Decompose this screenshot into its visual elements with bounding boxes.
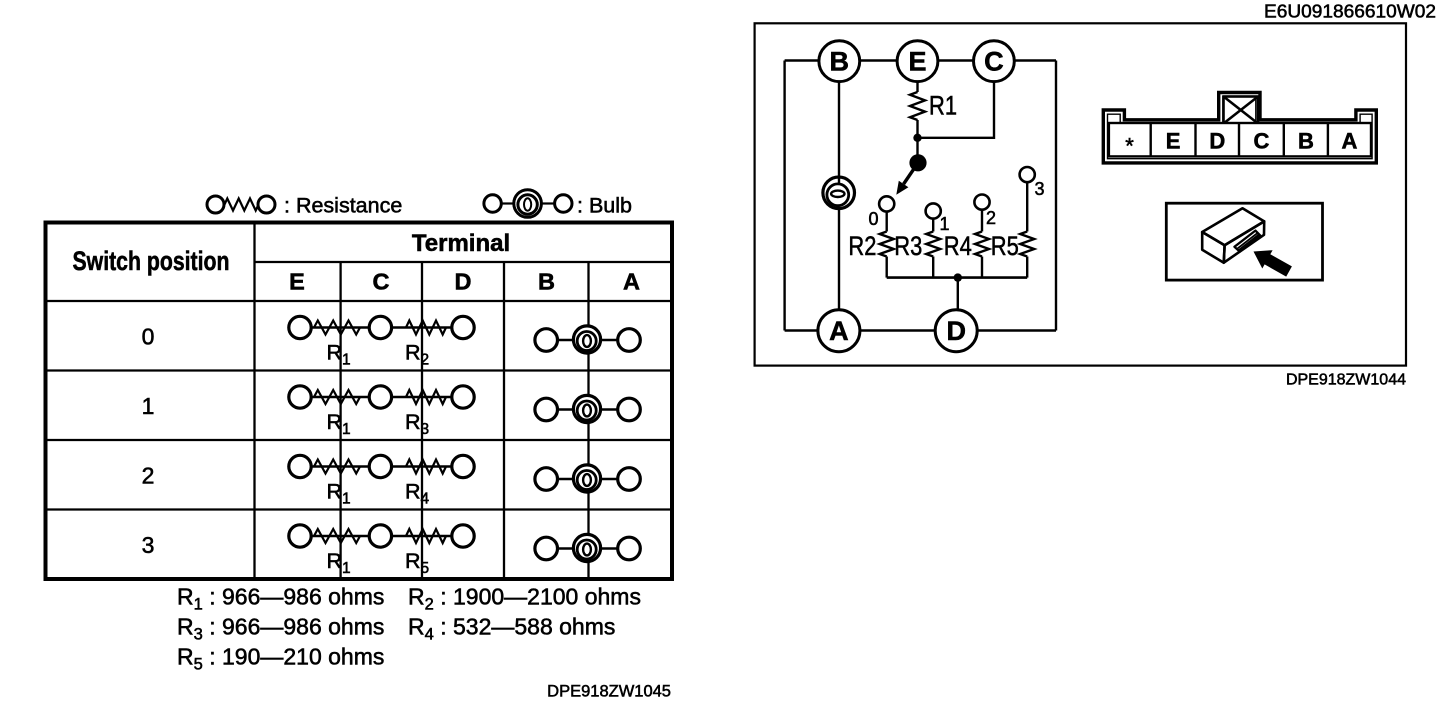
row 0 resistor chain circles [289, 316, 474, 338]
wire left outer vertical [783, 61, 785, 331]
connector pinout outline [1103, 93, 1376, 163]
switch pivot dot [909, 154, 926, 171]
resistor R3 lower wire [932, 257, 934, 278]
contact 3 circle [1020, 167, 1035, 182]
svg-text:DPE918ZW1045: DPE918ZW1045 [547, 683, 671, 701]
svg-text:: Bulb: : Bulb [577, 194, 632, 218]
resistor R1 zigzag [910, 92, 925, 120]
svg-text:R5: R5 [991, 231, 1019, 261]
contact 3 wire [1026, 175, 1028, 232]
svg-text:0: 0 [142, 324, 155, 350]
svg-text:DPE918ZW1044: DPE918ZW1044 [1286, 372, 1406, 389]
resistor R2 zigzag [880, 232, 894, 257]
right figure outer box [755, 23, 1406, 365]
connector icon box [1166, 203, 1322, 280]
legend bulb symbol [484, 190, 572, 218]
row 3 resistor R1 zigzag [314, 529, 360, 543]
connector pinout inner outline [1108, 97, 1373, 159]
svg-text:D: D [1209, 129, 1225, 154]
svg-text:R1 : 966—986 ohms: R1 : 966—986 ohms [177, 584, 384, 614]
svg-text:R5 : 190—210 ohms: R5 : 190—210 ohms [177, 644, 384, 674]
terminal D [935, 310, 977, 352]
svg-text:R3: R3 [894, 231, 922, 261]
svg-text:1: 1 [142, 393, 155, 419]
contact 0 circle [879, 196, 894, 211]
connector latch X box [1224, 97, 1259, 124]
wire top rail B-E-C [785, 59, 1056, 61]
row 1 resistor R1 zigzag [314, 390, 360, 404]
svg-text:A: A [829, 316, 849, 346]
terminal C [974, 41, 1015, 82]
svg-text:R3: R3 [405, 410, 429, 438]
connector pin cells [1109, 123, 1371, 156]
wire junction to C [918, 81, 995, 138]
wire B to A through bulb [838, 61, 840, 331]
row 3 resistor chain circles [289, 525, 474, 547]
svg-text:D: D [455, 269, 472, 295]
svg-text:R3 : 966—986 ohms: R3 : 966—986 ohms [177, 614, 384, 644]
svg-text:B: B [1298, 129, 1314, 154]
svg-text:R4: R4 [944, 231, 972, 261]
row 2 resistor R4 zigzag [406, 460, 446, 474]
svg-text:R1: R1 [327, 341, 351, 369]
svg-text:R2: R2 [405, 341, 429, 369]
wire right outer vertical [1055, 61, 1057, 331]
row 0 resistor R1 zigzag [314, 321, 360, 335]
rail junction node [954, 273, 962, 281]
svg-text:R2 : 1900—2100 ohms: R2 : 1900—2100 ohms [408, 584, 641, 614]
svg-text:2: 2 [986, 208, 996, 228]
svg-text:Terminal: Terminal [412, 230, 510, 257]
bulb symbol on B-A branch [823, 177, 855, 209]
row 2 resistor chain circles [289, 455, 474, 477]
legend resistance symbol [207, 196, 275, 213]
terminal B [819, 41, 860, 82]
svg-text:*: * [1125, 134, 1134, 159]
svg-text:R1: R1 [327, 480, 351, 508]
svg-text:E: E [289, 269, 305, 295]
switch wiper arrow [904, 163, 918, 184]
svg-text:R5: R5 [405, 549, 429, 577]
table outer border [46, 223, 673, 580]
terminal A [818, 310, 860, 352]
svg-text:2: 2 [142, 463, 155, 489]
svg-text:R1: R1 [929, 91, 957, 121]
wire E down to R1 and junction [916, 61, 918, 93]
svg-text:3: 3 [142, 532, 155, 558]
contact 1 wire [932, 211, 934, 232]
row 3 resistor R5 zigzag [406, 529, 446, 543]
common rail wire [887, 276, 1027, 279]
svg-text:B: B [538, 269, 555, 295]
svg-text:0: 0 [868, 209, 878, 229]
svg-text:R4 : 532—588 ohms: R4 : 532—588 ohms [408, 614, 615, 644]
svg-text:R1: R1 [327, 549, 351, 577]
wire rail to D [957, 278, 959, 331]
resistor R4 lower wire [981, 257, 983, 278]
row 1 resistor R3 zigzag [406, 390, 446, 404]
row 1 resistor chain circles [289, 386, 474, 408]
table grid lines [46, 223, 673, 580]
svg-text:E: E [908, 47, 926, 77]
svg-text:E6U091866610W02: E6U091866610W02 [1264, 1, 1436, 22]
resistor R3 zigzag [926, 232, 940, 257]
junction node below R1 [913, 134, 921, 142]
row 2 bulb chain [535, 465, 640, 492]
svg-text:3: 3 [1034, 179, 1044, 199]
contact 0 wire [886, 204, 888, 232]
row 0 resistor R2 zigzag [406, 321, 446, 335]
row 0 bulb chain [535, 326, 640, 353]
svg-text:A: A [1342, 129, 1358, 154]
svg-text:B: B [830, 47, 850, 77]
svg-text:C: C [1253, 129, 1269, 154]
contact 2 wire [981, 202, 983, 231]
resistor R4 zigzag [975, 232, 989, 257]
wire bottom rail A-D [785, 329, 1056, 331]
svg-text:: Resistance: : Resistance [284, 194, 402, 218]
resistor R2 lower wire [886, 257, 888, 278]
svg-text:Switch position: Switch position [73, 246, 230, 276]
row 3 bulb chain [535, 534, 640, 561]
svg-text:C: C [373, 269, 390, 295]
svg-text:C: C [984, 47, 1004, 77]
svg-text:A: A [623, 269, 640, 295]
row 2 resistor R1 zigzag [314, 460, 360, 474]
pointing arrow [1254, 250, 1292, 276]
svg-text:R2: R2 [848, 231, 876, 261]
svg-text:R1: R1 [327, 410, 351, 438]
svg-text:E: E [1166, 129, 1181, 154]
row 1 bulb chain [535, 395, 640, 422]
svg-text:R4: R4 [405, 480, 430, 508]
connector 3d icon [1202, 208, 1264, 262]
svg-text:D: D [946, 316, 966, 346]
resistor R5 zigzag [1020, 232, 1034, 257]
contact 2 circle [974, 195, 989, 210]
terminal E [897, 41, 938, 82]
contact 1 circle [926, 203, 941, 218]
resistor R5 lower wire [1026, 257, 1028, 278]
